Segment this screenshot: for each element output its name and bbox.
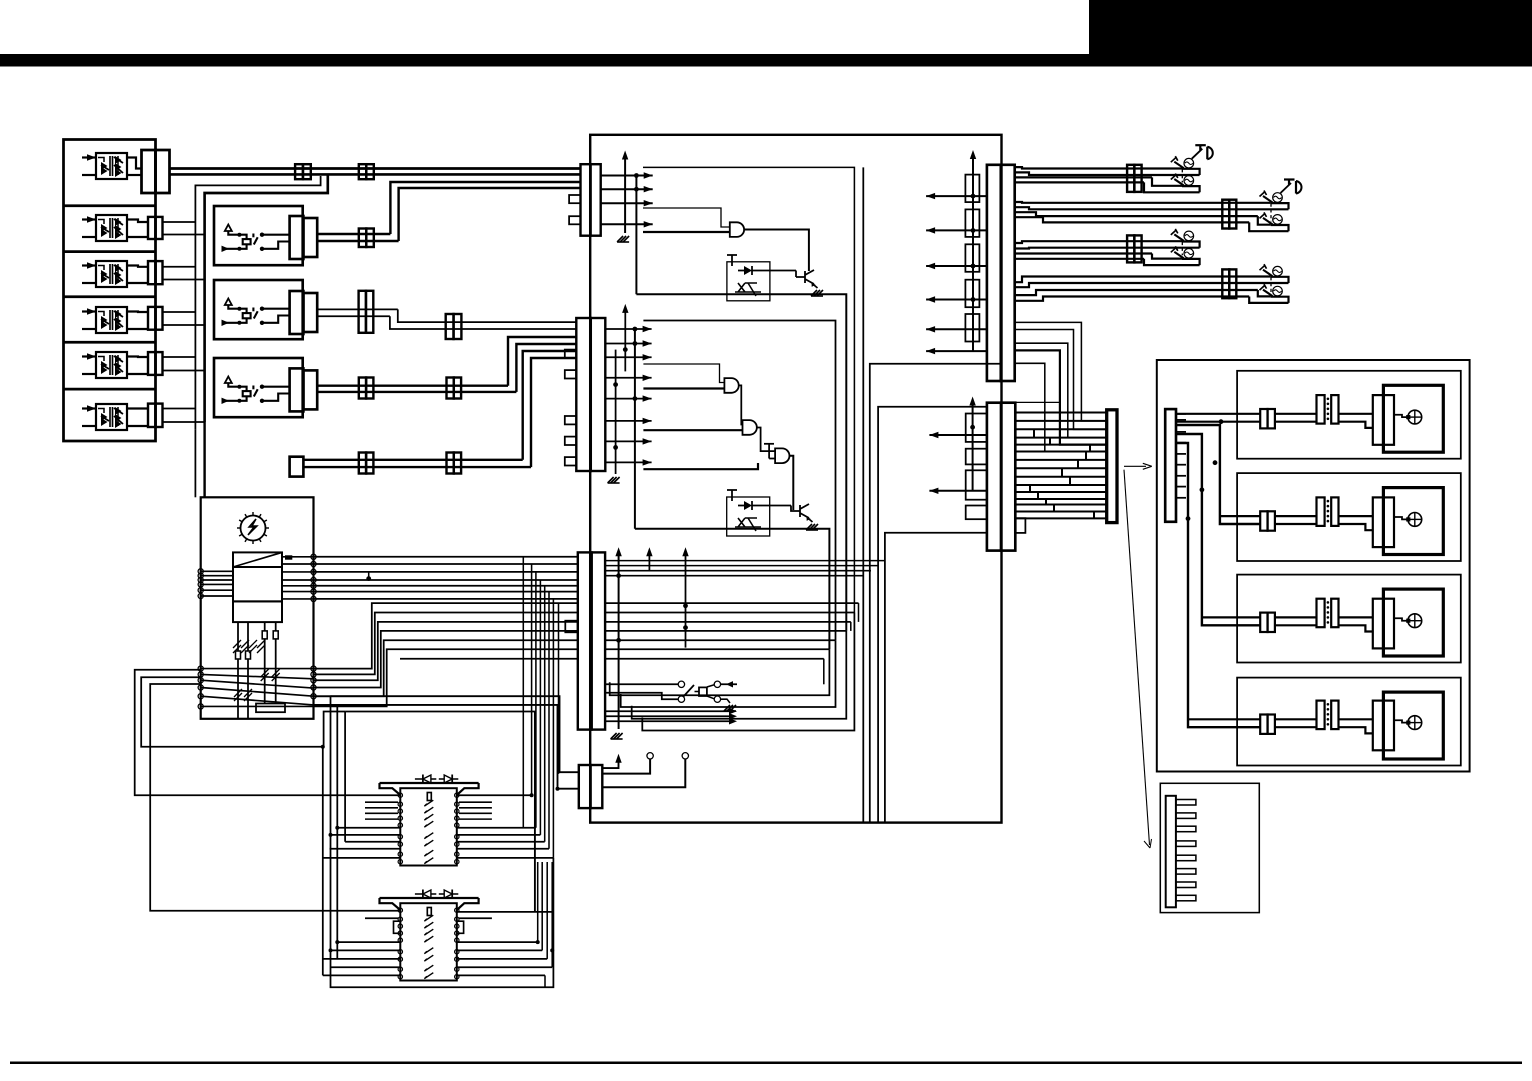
right unit connector: [1165, 409, 1176, 522]
matrix pins and switches: [398, 908, 402, 912]
lamp wire pair 2: [1339, 413, 1373, 415]
lamp inline connector: [1260, 613, 1267, 632]
input arrow PC3: [82, 264, 96, 266]
left box divider: [64, 204, 156, 207]
input wire PC4: [82, 328, 96, 330]
top section top wire: [643, 167, 854, 612]
lamp connector: [1373, 701, 1394, 751]
matrix1 top row right extension: [457, 794, 532, 796]
lamp: [1408, 614, 1422, 628]
wire m5 out to bus: [163, 356, 196, 358]
ground third section: [611, 733, 623, 739]
matrix 2 side stubs: [365, 917, 398, 919]
inline connector IC-C: [1127, 235, 1134, 262]
lamp: [1273, 266, 1283, 276]
transformer key: [285, 555, 292, 559]
switch link dashed: [1181, 169, 1183, 182]
power supply box: [201, 497, 314, 719]
matrix 2 brackets: [394, 921, 401, 933]
wire m4 out to bus: [163, 311, 196, 313]
lamp wire pair: [1275, 616, 1317, 618]
matrix diode D2: [444, 890, 452, 898]
gate U3 input 2: [643, 387, 724, 389]
lamp: [1273, 193, 1283, 203]
bundle vertical stubs: [858, 603, 860, 622]
right unit outer box: [1157, 360, 1470, 772]
CN-T4 left feed 2: [337, 705, 579, 789]
lamp: [1184, 158, 1194, 168]
CN-T1 wire to gate 2: [643, 231, 730, 233]
Q1 emitter ground: [814, 285, 818, 288]
relay RL1 connector: [290, 216, 304, 259]
inner boundary right 3: [878, 407, 987, 823]
CN-R2 left arrows: [929, 434, 987, 436]
comb connector box: [1160, 783, 1259, 912]
U2 triac: [735, 283, 761, 292]
wire riser from PSU box: [314, 649, 578, 706]
bundle 2 wires to switch group 2: [1015, 201, 1271, 204]
wire m2 out to bus: [163, 221, 196, 223]
RC circuit ground: [721, 699, 730, 703]
AND gate U1: [730, 222, 744, 237]
inline connector RL1: [359, 229, 367, 248]
horn symbol: [1192, 149, 1203, 159]
wire riser from PSU box: [314, 613, 578, 675]
gate U3 input loop: [643, 364, 724, 383]
transformer T1: [233, 552, 282, 567]
lamp: [1408, 716, 1422, 730]
switch lever: [1263, 218, 1273, 225]
opto-isolator module PC1: [96, 153, 127, 179]
wire PSU to matrix vertical B: [314, 705, 338, 959]
matrix 1 row wires: [337, 827, 400, 829]
bottom feed pair: [303, 459, 522, 461]
branch vertical second section: [634, 329, 636, 529]
lamp connector: [1373, 497, 1394, 547]
gate U4 to U5: [757, 428, 775, 452]
U2 LED: [744, 266, 752, 275]
CN-R2 stub right: [1015, 518, 1025, 533]
lamp wire pair: [1275, 718, 1317, 720]
lamp: [1184, 176, 1194, 186]
motor/gear symbol: [241, 516, 266, 541]
connector CN-T2: [576, 318, 591, 471]
transistor Q2: [800, 504, 809, 518]
header black bar: [0, 54, 1532, 67]
relay coil: [243, 313, 251, 318]
rail loop: [1182, 169, 1200, 175]
gate U1 output wire: [744, 230, 809, 272]
matrix 2 right verticals: [537, 862, 539, 942]
bundle 1 wires to switch group 1: [1015, 167, 1182, 168]
CN-R2 weave wires to bus bar: [1016, 412, 1107, 414]
lamp wire pair 2: [1339, 515, 1373, 517]
connector module 2: [148, 217, 156, 239]
matrix 1 side stubs: [365, 801, 398, 803]
connector CN-T3: [578, 552, 592, 729]
relay RL3 output pair: [317, 384, 508, 386]
CN-T3 right rows lower bundle: [605, 602, 858, 604]
matrix right verticals: [522, 557, 524, 828]
gate U3 to U4: [739, 385, 742, 424]
input arrow PC1: [82, 156, 96, 158]
comb bar: [1166, 796, 1176, 908]
matrix key: [427, 908, 431, 916]
inline connector RL3 second: [447, 378, 454, 399]
lamp sub-box: [1237, 575, 1461, 663]
CN-T3 bottom arrows: [605, 710, 730, 712]
main control unit box: [590, 135, 1001, 823]
relay coil path: [228, 383, 246, 391]
U2 cap bar: [731, 255, 733, 266]
lamp wire pair 2: [1339, 718, 1373, 720]
relay output wires: [262, 234, 290, 236]
hash marks mid: [233, 640, 241, 648]
input wire PC5: [82, 373, 96, 375]
matrix feed vertical: [345, 712, 535, 912]
second section top wire: [643, 321, 835, 641]
matrix 2 top row right wire: [457, 911, 554, 913]
inline connector pair 1: [295, 164, 303, 179]
transformer pins left: [237, 622, 239, 651]
CN-R1 lower staircase wires: [1015, 322, 1107, 421]
ground vertical second section: [615, 350, 617, 474]
comb teeth: [1176, 800, 1196, 806]
relay RL3 connector: [290, 368, 304, 411]
CN-T4 left feed 1: [331, 696, 579, 772]
CN-T2 right out arrows: [605, 328, 652, 330]
switch lever: [1263, 290, 1273, 297]
CN-T3 right rows upper bundle: [605, 560, 885, 562]
lamp sub-box: [1237, 678, 1461, 766]
lamp wire pair 2: [1339, 616, 1373, 618]
VCC arrow third section: [618, 554, 620, 729]
wire g3 lower steps: [1152, 254, 1182, 259]
pointer arrow horizontal: [1124, 465, 1146, 467]
CN-R2 VCC arrow: [972, 404, 974, 491]
wire RL2 jog down: [398, 309, 576, 322]
lamp: [1273, 215, 1283, 225]
lamp: [1184, 231, 1194, 241]
connector module 3: [148, 261, 156, 284]
wire m1 pair lower: [170, 173, 581, 176]
switch lever: [1174, 179, 1184, 186]
lamp wire 3: [1394, 517, 1408, 519]
left box divider: [64, 341, 156, 344]
right feed wire 2: [1176, 425, 1260, 524]
left box divider: [64, 388, 156, 391]
lamp connector: [1373, 599, 1394, 649]
weave staircase jogs: [1029, 485, 1031, 492]
input arrow PC2: [82, 218, 96, 220]
bottom feed terminal: [290, 457, 304, 477]
U2 bottom wire: [636, 294, 846, 631]
connector CN-R1: [987, 165, 1001, 381]
lamp inner box: [1383, 589, 1443, 656]
lamp inline connector: [1260, 511, 1267, 530]
ground top section: [617, 236, 629, 242]
rail loop: [1271, 277, 1289, 283]
connector module 6: [148, 404, 156, 427]
rail loop: [1182, 259, 1200, 265]
right connector fan stubs: [1176, 413, 1186, 415]
connector CN-T4: [579, 765, 591, 808]
relay box RL3: [214, 358, 303, 417]
gate U4 input 2: [643, 429, 742, 431]
PSU right edge nodes: [311, 554, 316, 559]
relay coil path: [228, 305, 246, 313]
connector CN-R2: [987, 403, 1001, 551]
input wire PC2: [82, 236, 96, 238]
CN-T3 pin stub: [565, 621, 578, 633]
lamp inner box: [1383, 488, 1443, 555]
wire riser from PSU box: [314, 603, 578, 669]
left box divider: [64, 250, 156, 253]
switch link dashed: [1270, 277, 1272, 293]
ground second section: [608, 477, 620, 483]
wire RL3 rise to CN3: [508, 337, 576, 386]
switch lever: [1174, 234, 1184, 241]
lamp inner box: [1383, 692, 1443, 759]
matrix diode D2: [444, 775, 452, 783]
input arrow PC5: [82, 355, 96, 357]
pointer arrow long diagonal: [1124, 470, 1150, 845]
rail loop: [1182, 242, 1200, 248]
wire m6 out to bus: [163, 408, 196, 410]
lamp: [1184, 249, 1194, 259]
rail loop: [1271, 297, 1289, 303]
bus bar: [1107, 410, 1117, 523]
PSU left edge nodes: [198, 569, 203, 574]
wire m1 to CN1: [127, 158, 142, 169]
gate U5 lower wire: [643, 463, 758, 469]
input arrow PC4: [82, 310, 96, 312]
VCC arrow aux 2: [685, 554, 687, 648]
lamp wire 3: [1394, 720, 1408, 722]
lamp inner box: [1383, 385, 1443, 452]
wire m3 to connector: [127, 266, 148, 267]
inner boundary right 4: [885, 533, 987, 823]
branch vertical top section: [635, 176, 637, 295]
lamp: [1408, 410, 1422, 424]
CN-T1 wire to gate: [643, 208, 730, 227]
U6 bottom wire: [635, 529, 830, 650]
AND gate U3: [724, 378, 738, 393]
inline connector RL3: [359, 378, 366, 399]
AND gate U4: [743, 420, 757, 435]
relay contact: [260, 385, 264, 389]
AND gate U5: [775, 448, 789, 463]
inline connector feed 2: [447, 453, 454, 474]
relay box RL1: [214, 206, 303, 265]
CN-T1 out arrows: [601, 175, 653, 177]
inline connector RL2: [359, 291, 366, 333]
opto-isolator module PC5: [96, 352, 127, 378]
U2 to Q1 wire: [762, 270, 796, 272]
left box divider: [64, 295, 156, 298]
inner boundary right 2: [870, 364, 1002, 823]
RC filter switch circuit: [678, 681, 684, 687]
CN-T4 right wire 2: [602, 759, 685, 787]
relay coil: [243, 239, 251, 244]
rail loop: [1271, 203, 1289, 209]
connector CN1 (module 1): [142, 150, 156, 193]
wire g1 lower steps: [1152, 177, 1182, 185]
L bracket wires below CN-T3: [610, 649, 830, 695]
wire riser from PSU box: [314, 622, 578, 680]
matrix vertical D: [322, 747, 324, 976]
matrix hat bar: [380, 897, 479, 899]
Q2 ground: [809, 519, 813, 522]
CN-T4 right wire 1: [602, 759, 650, 774]
lamp: [1408, 513, 1422, 527]
wire m1 pair upper: [170, 167, 581, 170]
right feed pair 1: [1176, 413, 1260, 415]
wire g4 lower steps: [1258, 290, 1271, 296]
VCC arrow aux 1: [648, 554, 650, 571]
relay output wires: [262, 386, 290, 388]
cap symbol U5: [768, 444, 770, 459]
wire riser from PSU box: [314, 640, 578, 696]
relay RL2 connector: [290, 291, 304, 334]
transformer pins right: [264, 622, 266, 631]
wire riser from PSU box: [314, 631, 578, 688]
matrix pins and switches: [398, 793, 402, 797]
rail loop: [1182, 186, 1200, 192]
connector module 5: [148, 352, 156, 375]
connector CN-T1: [581, 164, 591, 236]
wire g2 lower steps: [1258, 216, 1271, 225]
opto-isolator module PC3: [96, 261, 127, 287]
CN-R1 pin brackets: [965, 175, 979, 203]
relay coil path: [228, 231, 246, 239]
header black box: [1089, 0, 1532, 66]
matrix diode D1: [423, 890, 431, 898]
RC circuit arrow: [721, 683, 737, 685]
relay RL2 output pair: [317, 308, 398, 310]
right feed wire 4: [1176, 443, 1260, 727]
inline connector feed 1: [359, 453, 366, 474]
input wire PC1: [82, 174, 96, 176]
wire PSU to matrix vertical A: [314, 696, 554, 987]
lamp: [1273, 286, 1283, 296]
matrix hat bar: [380, 782, 479, 784]
CN-R2 pin brackets: [966, 414, 987, 442]
left input box: [64, 140, 156, 442]
opto-isolator module PC6: [96, 404, 127, 430]
wire m6 to connector: [127, 407, 148, 409]
wire m5 to connector: [127, 355, 148, 358]
lamp coupling connector: [1317, 395, 1325, 424]
footer rule: [10, 1062, 1522, 1065]
lamp coupling connector: [1317, 497, 1325, 526]
matrix 2 row wires: [337, 941, 400, 943]
lamp inline connector: [1260, 715, 1267, 734]
relay box RL2: [214, 280, 303, 339]
lamp inline connector: [1260, 409, 1267, 428]
wire feed rise to CN3: [523, 351, 576, 460]
lamp sub-box: [1237, 473, 1461, 561]
switch link dashed: [1181, 242, 1183, 255]
rail loop: [1271, 225, 1289, 231]
pin bracket: [256, 704, 285, 713]
wire m3 out to bus: [163, 266, 196, 268]
relay contact: [260, 307, 264, 311]
input wire PC3: [82, 282, 96, 284]
wire left loop 1: [135, 670, 401, 795]
wire RL1 rise to CN: [390, 182, 580, 234]
VCC arrow CN-T4: [602, 761, 618, 768]
right feed wire 3: [1176, 434, 1260, 625]
switch lever: [1174, 252, 1184, 258]
bundle 4 wires to switch group 4: [1015, 277, 1271, 283]
CN-T1 pin stub 2: [569, 216, 580, 224]
matrix body: [400, 903, 457, 980]
top weave wire: [1008, 402, 1060, 412]
CN-R1 left arrows: [926, 195, 987, 197]
lamp wire 3: [1394, 415, 1408, 417]
VCC arrow top section: [624, 158, 626, 233]
switch lever: [1263, 196, 1273, 203]
matrix key: [427, 793, 431, 801]
transistor Q1: [805, 270, 814, 284]
matrix diode D1: [423, 775, 431, 783]
PSU interior wires lower: [201, 668, 314, 670]
wire left loop 2: [141, 677, 345, 747]
inner boundary right 1: [862, 167, 864, 822]
bus vertical B: [205, 174, 328, 422]
bundle 3 wires to switch group 3: [1015, 241, 1182, 243]
lamp sub-box: [1237, 371, 1461, 459]
lamp coupling connector: [1317, 701, 1325, 730]
lamp wire 3: [1394, 618, 1408, 620]
CN-R1 VCC arrow: [972, 157, 974, 351]
inline connector pair 2: [359, 164, 367, 179]
relay RL1 output pair: [317, 233, 390, 235]
junction stub: [368, 572, 370, 579]
wire m2 to connector: [127, 220, 148, 223]
horn symbol: [1281, 183, 1292, 193]
wire CN-T3 to RC: [605, 683, 678, 685]
switch link dashed: [1270, 204, 1272, 222]
CN-T2 pin stubs: [565, 350, 577, 358]
lamp wire pair: [1275, 515, 1317, 517]
lamp wire pair: [1275, 413, 1317, 415]
gate U5 output: [790, 456, 794, 510]
opto-triac box U2: [727, 262, 770, 301]
opto-triac box U6: [727, 497, 770, 536]
input arrow PC6: [82, 407, 96, 409]
switch lever: [1174, 162, 1184, 169]
relay output wires: [262, 308, 290, 310]
wire left loop 3: [150, 684, 400, 911]
bus feed into PSU: [194, 430, 196, 498]
matrix vertical C: [344, 712, 346, 842]
matrix body: [400, 788, 457, 865]
opto-isolator module PC4: [96, 307, 127, 333]
wire m4 to connector: [127, 310, 148, 313]
inline connector IC-D: [1222, 269, 1229, 298]
PSU interior wires upper: [201, 570, 233, 572]
connector module 4: [148, 307, 156, 330]
VCC arrow second section: [624, 311, 626, 372]
opto-isolator module PC2: [96, 215, 127, 241]
inline connector RL2 second: [446, 314, 454, 339]
inline connector IC-B: [1222, 200, 1229, 229]
relay contact: [260, 233, 264, 237]
input wire PC6: [82, 425, 96, 427]
power rows upper: [314, 556, 578, 558]
